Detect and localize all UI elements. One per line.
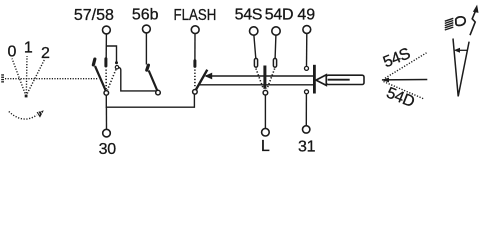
terminal 57/58 circle: [103, 26, 111, 34]
wire 57/58 branch to flash contact: [106, 46, 116, 62]
flash lever (solid): [195, 70, 207, 91]
svg-text:0: 0: [7, 44, 16, 61]
stalk lever right arm: [458, 42, 469, 97]
pivot 56b lever: [156, 90, 161, 95]
wire FLASH stem: [194, 34, 196, 60]
pivot turn lever: [263, 90, 268, 95]
wire 57/58 stem: [105, 34, 107, 58]
rotation arc: [9, 112, 37, 120]
terminal 54D circle: [272, 27, 280, 35]
56b lever tip capsule: [145, 63, 151, 72]
wire stem to terminal L: [264, 95, 266, 128]
dotted turn lever position 54D: [267, 69, 275, 90]
turn signal movable bar: [263, 66, 266, 89]
svg-text:54S: 54S: [235, 7, 263, 24]
contact bar 54S: [254, 58, 257, 67]
stalk lever left arm: [453, 39, 458, 97]
flash bolt arrowhead: [473, 5, 479, 13]
56b lever: [149, 71, 158, 93]
svg-text:49: 49: [297, 6, 315, 23]
push rod line A with arrowhead: [206, 75, 314, 77]
push rod line B: [199, 84, 313, 86]
actuator rod centerline: [328, 79, 350, 81]
contact stud (branch end): [115, 61, 118, 64]
right indicator solid line: [382, 79, 427, 81]
flash bolt arrow: [470, 10, 476, 36]
headlight beam hatch: [445, 18, 454, 30]
svg-text:FLASH: FLASH: [174, 7, 217, 24]
open contact circle: [115, 66, 118, 69]
svg-text:57/58: 57/58: [74, 7, 114, 24]
dotted turn lever position 54S: [256, 69, 264, 90]
dotted lever position 1: [105, 70, 107, 90]
arrowhead line A: [204, 73, 212, 80]
fan vertex dot: [25, 95, 28, 98]
wire stem to terminal 31: [305, 94, 307, 126]
terminal 56b circle: [143, 25, 151, 33]
horizontal dotted axis line: [5, 78, 99, 80]
pivot flash lever: [193, 90, 198, 95]
lever tip capsule (position 2): [91, 57, 96, 67]
terminal 30 circle: [103, 129, 111, 137]
contact bar 57/58: [104, 57, 107, 67]
contact bar 54D: [273, 58, 276, 67]
svg-text:31: 31: [298, 138, 316, 155]
svg-text:54D: 54D: [265, 7, 293, 24]
actuator arrowhead (open): [316, 75, 326, 86]
wire bottom link 30 to flash pivot: [106, 94, 194, 107]
fan ray to 2: [26, 59, 45, 97]
rotation arc arrowhead: [37, 110, 44, 117]
open contact 49: [305, 66, 309, 70]
fan ray to 0: [12, 59, 26, 97]
right dotted ray 54S: [385, 53, 427, 78]
wire 54S stem: [254, 35, 256, 58]
wire 56b stem: [145, 33, 147, 65]
main lever (solid, position 2): [95, 66, 106, 92]
svg-text:2: 2: [41, 45, 50, 62]
svg-text:30: 30: [99, 141, 117, 158]
stalk pull arrow line: [457, 49, 467, 51]
pivot main lever: [104, 91, 109, 96]
wire 49 stem: [306, 33, 308, 66]
right indicator arrowhead: [381, 78, 389, 83]
actuator bar: [313, 65, 316, 94]
dotted flash lever rest position: [194, 70, 196, 89]
svg-text:56b: 56b: [132, 7, 159, 24]
terminal FLASH circle: [191, 26, 199, 34]
right dotted ray 54D: [384, 82, 425, 100]
terminal 54S circle: [250, 27, 258, 35]
hatched reference tick: [1, 74, 4, 82]
terminal L circle: [262, 128, 270, 136]
svg-text:L: L: [261, 138, 270, 155]
stalk pull arrowhead: [454, 48, 460, 53]
wire stem to terminal 30: [105, 107, 107, 129]
contact bar FLASH: [193, 59, 196, 68]
actuator rod: [326, 75, 364, 84]
dotted lever position flash: [108, 69, 117, 90]
terminal 31 circle: [303, 126, 310, 133]
wire open contact to 56b pivot: [119, 67, 157, 91]
wire 54D stem: [274, 35, 277, 58]
svg-text:1: 1: [24, 39, 33, 56]
terminal 49 circle: [303, 26, 311, 34]
open contact 31: [305, 90, 309, 94]
fan ray to 1: [25, 56, 28, 96]
headlight lens: [456, 17, 465, 26]
